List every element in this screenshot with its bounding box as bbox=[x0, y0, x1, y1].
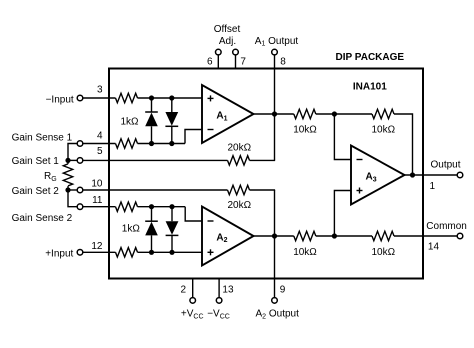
svg-text:10kΩ: 10kΩ bbox=[371, 124, 395, 135]
svg-text:Common: Common bbox=[426, 221, 467, 232]
diode D4 (lower pair right, anode up) bbox=[171, 207, 173, 222]
svg-text:Gain Set 2: Gain Set 2 bbox=[12, 186, 60, 197]
svg-text:Gain Sense 1: Gain Sense 1 bbox=[12, 132, 73, 143]
wire pin 13 stub (-Vcc) bbox=[218, 279, 220, 298]
wire RG bottom stub bbox=[67, 186, 69, 190]
resistor R9 10k ohm bbox=[294, 231, 316, 240]
node pin 8 terminal (A1 Output) bbox=[272, 49, 278, 55]
wire R1 to A1 + input bbox=[138, 97, 203, 99]
wire pin 6 stub bbox=[217, 55, 219, 69]
wire R7 to R8 bbox=[316, 113, 372, 115]
wire pin 10 to resistor R6 bbox=[83, 189, 228, 191]
wire pin 4 to resistor R2 bbox=[83, 143, 116, 145]
svg-text:A1 Output: A1 Output bbox=[255, 36, 299, 48]
wire jog down to A2 - input bbox=[185, 207, 202, 221]
wire RG top stub bbox=[67, 160, 69, 164]
svg-text:10: 10 bbox=[91, 179, 103, 190]
wire A3 + input branch bbox=[334, 191, 351, 237]
svg-text:10kΩ: 10kΩ bbox=[371, 247, 395, 258]
A3 + input symbol bbox=[357, 190, 363, 192]
svg-text:DIP PACKAGE: DIP PACKAGE bbox=[336, 52, 405, 63]
wire pin 11 external stub left bbox=[68, 190, 77, 207]
wire R2 to jog corner bbox=[138, 143, 186, 145]
svg-text:+Input: +Input bbox=[45, 249, 73, 260]
wire A3 - input branch bbox=[334, 114, 351, 160]
junction top summing node bbox=[332, 111, 337, 116]
svg-text:Gain Set 1: Gain Set 1 bbox=[12, 156, 60, 167]
resistor R8 10k ohm (A3 feedback) bbox=[372, 109, 394, 118]
wire pin 9 vertical from A2 output bbox=[274, 190, 276, 298]
node pin 4 terminal (Gain Sense 1) bbox=[77, 141, 83, 147]
resistor R7 10k ohm bbox=[294, 109, 316, 118]
svg-text:7: 7 bbox=[240, 56, 246, 67]
A1 + input symbol bbox=[208, 97, 214, 99]
junction dots lower diode pair bbox=[149, 204, 154, 209]
resistor R6 20k ohm (A2 feedback) bbox=[228, 185, 250, 194]
resistor R3 1k ohm (A2 - input) bbox=[116, 202, 138, 211]
node pin 1 terminal (Output) bbox=[457, 172, 463, 178]
junction A3 output / feedback bbox=[410, 172, 415, 177]
wire pin 2 stub (+Vcc) bbox=[192, 279, 194, 298]
node pin 13 terminal bbox=[216, 298, 222, 304]
resistor R2 1k ohm (A1 - input) bbox=[116, 139, 138, 148]
svg-text:1: 1 bbox=[430, 181, 436, 192]
wire pin 11 to resistor R3 bbox=[83, 206, 116, 208]
A3 - input symbol bbox=[357, 159, 363, 161]
wire R3 to jog corner bbox=[138, 206, 186, 208]
svg-text:3: 3 bbox=[97, 85, 103, 96]
svg-text:6: 6 bbox=[207, 56, 213, 67]
resistor RG (external gain set) bbox=[63, 164, 72, 186]
svg-text:9: 9 bbox=[280, 285, 286, 296]
svg-text:11: 11 bbox=[92, 195, 103, 206]
svg-text:14: 14 bbox=[428, 242, 440, 253]
diode D3 (lower pair left, anode down) bbox=[151, 207, 153, 222]
wire R9 to R10 bbox=[316, 235, 372, 237]
svg-text:1kΩ: 1kΩ bbox=[120, 117, 139, 128]
svg-text:+VCC: +VCC bbox=[181, 309, 204, 321]
wire R8 to feedback corner bbox=[394, 114, 413, 175]
junction bottom reference node bbox=[332, 233, 337, 238]
svg-text:INA101: INA101 bbox=[353, 81, 387, 92]
A2 - input symbol bbox=[208, 220, 214, 222]
wire pin 5 external stub left bbox=[68, 159, 77, 161]
diode D2 (upper pair right, anode up) bbox=[171, 98, 173, 112]
resistor R4 1k ohm (A2 + input) bbox=[116, 248, 138, 257]
junction A1 output / pin 8 bbox=[272, 111, 277, 116]
node pin 5 terminal (Gain Set 1) bbox=[77, 158, 83, 164]
junction A2 output / pin 9 bbox=[272, 233, 277, 238]
node pin 10 terminal (Gain Set 2) bbox=[77, 187, 83, 193]
svg-text:4: 4 bbox=[97, 131, 103, 142]
node pin 3 terminal (-Input) bbox=[77, 95, 83, 101]
svg-text:Adj.: Adj. bbox=[219, 36, 236, 47]
wire pin 3 to resistor R1 bbox=[83, 97, 116, 99]
wire pin 7 stub bbox=[235, 55, 237, 69]
wire R10 to Common pin 14 bbox=[394, 235, 457, 237]
node pin 2 terminal bbox=[190, 298, 196, 304]
svg-text:1kΩ: 1kΩ bbox=[122, 224, 141, 235]
svg-text:−Input: −Input bbox=[46, 95, 74, 106]
wire A3 output to pin 1 bbox=[405, 174, 458, 176]
svg-text:10kΩ: 10kΩ bbox=[293, 124, 317, 135]
A2 + input symbol bbox=[208, 251, 214, 253]
svg-text:2: 2 bbox=[180, 285, 186, 296]
diode D1 (upper pair left, anode down) bbox=[151, 98, 153, 112]
junction RG top bbox=[65, 158, 70, 163]
resistor R1 1k ohm (A1 + input) bbox=[116, 93, 138, 102]
wire pin 12 to resistor R4 bbox=[83, 251, 116, 253]
svg-text:Output: Output bbox=[431, 159, 461, 170]
svg-text:10kΩ: 10kΩ bbox=[293, 247, 317, 258]
wire pin 4 external stub left bbox=[68, 144, 77, 161]
svg-text:Gain Sense 2: Gain Sense 2 bbox=[12, 213, 73, 224]
op-amp A2 bbox=[202, 207, 254, 266]
svg-text:8: 8 bbox=[280, 56, 286, 67]
node pin 12 terminal (+Input) bbox=[77, 250, 83, 256]
wire A1 output row to R7 bbox=[254, 113, 294, 115]
resistor R5 20k ohm (A1 feedback) bbox=[228, 156, 250, 165]
svg-text:Offset: Offset bbox=[214, 24, 241, 35]
junction dots upper diode pair bbox=[149, 95, 154, 100]
op-amp A1 bbox=[202, 85, 254, 143]
op-amp A3 bbox=[351, 146, 405, 205]
svg-text:RG: RG bbox=[44, 171, 57, 183]
svg-text:−VCC: −VCC bbox=[207, 309, 230, 321]
wire jog up to A1 - input bbox=[185, 130, 202, 144]
svg-text:20kΩ: 20kΩ bbox=[227, 142, 251, 153]
node pin 6 terminal (Offset Adj.) bbox=[216, 49, 222, 55]
wire pin 10 external stub left bbox=[68, 189, 77, 191]
svg-text:5: 5 bbox=[97, 146, 103, 157]
wire R6 to A2 output column bbox=[250, 189, 276, 191]
wire pin 8 vertical into A1 output node bbox=[274, 55, 276, 160]
node pin 7 terminal (Offset Adj.) bbox=[233, 49, 239, 55]
svg-text:A2 Output: A2 Output bbox=[256, 309, 300, 321]
node pin 14 terminal (Common) bbox=[457, 233, 463, 239]
junction RG bottom bbox=[65, 187, 70, 192]
wire R4 to A2 + input bbox=[138, 251, 203, 253]
svg-text:12: 12 bbox=[91, 241, 103, 252]
svg-text:13: 13 bbox=[222, 285, 234, 296]
wire R5 to A1 output column bbox=[250, 159, 276, 161]
svg-text:20kΩ: 20kΩ bbox=[227, 200, 251, 211]
node pin 9 terminal (A2 Output) bbox=[272, 298, 278, 304]
IC package outline (DIP body) bbox=[109, 69, 423, 279]
A1 - input symbol bbox=[208, 129, 214, 131]
wire A2 output row to R9 bbox=[254, 235, 294, 237]
resistor R10 10k ohm (reference) bbox=[372, 231, 394, 240]
node pin 11 terminal (Gain Sense 2) bbox=[77, 204, 83, 210]
wire pin 5 to resistor R5 bbox=[83, 159, 228, 161]
